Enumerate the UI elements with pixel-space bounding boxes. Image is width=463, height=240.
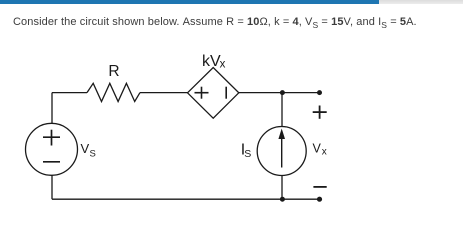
current source IS circle (257, 127, 306, 176)
dependent source minus bar (225, 87, 227, 99)
node dot bottom (280, 197, 285, 202)
svg-text:kV: kV (202, 53, 221, 70)
wire current source top (281, 93, 283, 127)
dependent source kVx (diamond) (188, 68, 239, 119)
dependent source plus sign (195, 87, 209, 99)
VS plus sign (43, 130, 60, 146)
progress bar track (0, 0, 463, 4)
svg-text:S: S (244, 148, 251, 160)
svg-text:S: S (90, 149, 96, 160)
label R (108, 63, 119, 80)
wire left vertical bottom (51, 175, 53, 199)
label kVx (202, 53, 226, 70)
svg-text:R: R (108, 63, 119, 80)
wire bottom rail (52, 198, 320, 200)
progress bar fill (0, 0, 379, 4)
label VS (81, 141, 96, 160)
node dot top (280, 90, 285, 95)
port plus sign (313, 106, 327, 119)
wire current source bottom (281, 176, 283, 200)
label Vx (313, 142, 327, 158)
resistor R (87, 83, 140, 101)
voltage source VS circle (26, 123, 78, 175)
port minus sign (313, 186, 326, 188)
terminal dot bottom right (317, 197, 322, 202)
VS minus sign (43, 161, 60, 163)
svg-text:V: V (81, 141, 90, 156)
svg-text:V: V (313, 142, 322, 156)
wire top rail right (239, 92, 320, 94)
wire left vertical top (51, 93, 53, 124)
current source arrow (278, 129, 285, 168)
label IS (241, 142, 252, 160)
question text (13, 16, 417, 28)
terminal dot top right (317, 90, 322, 95)
wire top rail middle (140, 92, 188, 94)
svg-text:x: x (322, 147, 327, 158)
svg-text:x: x (220, 58, 226, 70)
wire top rail left (52, 92, 87, 94)
